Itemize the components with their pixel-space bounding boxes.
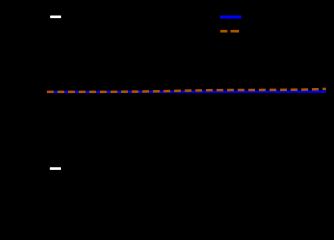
white tick dash (top left) <box>50 16 61 19</box>
main orange dashed curve <box>47 89 326 92</box>
legend blue solid line handle <box>220 15 241 18</box>
main blue solid curve <box>47 91 326 93</box>
white tick dash (bottom left) <box>50 167 61 170</box>
legend orange dashed line handle <box>220 30 239 33</box>
